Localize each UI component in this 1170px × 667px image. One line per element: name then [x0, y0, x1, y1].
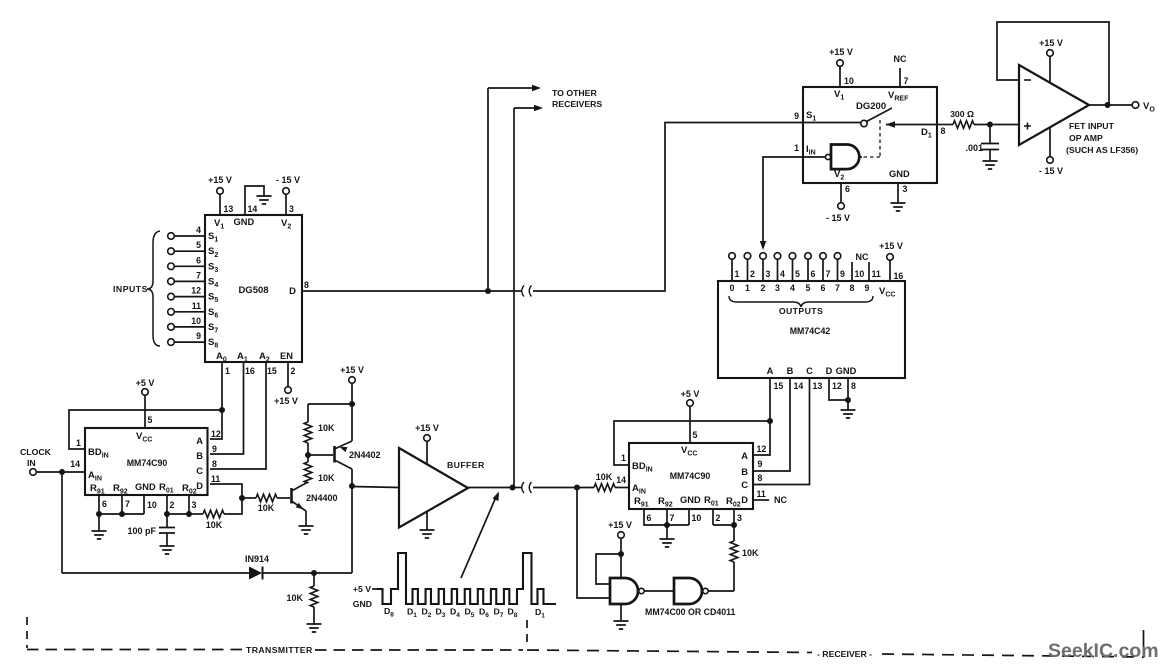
- svg-text:GND: GND: [353, 599, 372, 609]
- +15 V terminal at DG200 V1: [837, 60, 844, 67]
- svg-text:8: 8: [850, 283, 855, 293]
- svg-text:+5 V: +5 V: [681, 389, 700, 399]
- wire diode to 10K node: [263, 572, 353, 574]
- svg-text:TO OTHER: TO OTHER: [552, 88, 597, 98]
- wire buffer output: [468, 487, 512, 489]
- svg-text:3: 3: [766, 269, 771, 279]
- svg-text:- RECEIVER -: - RECEIVER -: [817, 649, 872, 659]
- svg-text:+15 V: +15 V: [274, 396, 298, 406]
- wire NAND2 output to 10K: [708, 590, 734, 592]
- MM74C42 output terminal 2 (pin 3): [760, 253, 767, 260]
- svg-text:5: 5: [806, 283, 811, 293]
- NAND pullup loop to gate input: [596, 554, 621, 584]
- svg-text:IN914: IN914: [245, 554, 269, 564]
- NAND gate 2: [674, 578, 702, 604]
- wire MM74C90 D pin 11 to node: [210, 484, 242, 498]
- terminal EN to +15 V: [285, 387, 292, 394]
- svg-text:NC: NC: [894, 54, 907, 64]
- op-amp plus sign: [1024, 123, 1031, 130]
- svg-text:CLOCK: CLOCK: [20, 447, 52, 457]
- wire S3 to DG508: [174, 265, 205, 267]
- wire S7 to DG508: [174, 326, 205, 328]
- resistor 10K receiver reset: [733, 525, 735, 541]
- svg-text:MM74C00 OR CD4011: MM74C00 OR CD4011: [645, 607, 736, 617]
- IC U7 MM74C90 counter (receiver) body: [629, 443, 753, 509]
- svg-text:16: 16: [245, 366, 255, 376]
- svg-text:+15 V: +15 V: [608, 520, 632, 530]
- wire 2N4402 emitter to +15V node: [351, 404, 353, 441]
- MM74C42 output terminal 1 (pin 2): [744, 253, 751, 260]
- line-break marks on D line: [522, 286, 532, 297]
- svg-text:10: 10: [855, 269, 865, 279]
- wire +15V into gate top: [620, 554, 622, 578]
- svg-text:OUTPUTS: OUTPUTS: [779, 306, 823, 316]
- svg-text:C: C: [196, 466, 203, 476]
- svg-text:DG508: DG508: [238, 285, 268, 296]
- input terminal S1: [168, 233, 175, 240]
- svg-text:9: 9: [794, 111, 799, 121]
- MM74C42 output terminal 4 (pin 5): [789, 253, 796, 260]
- +15 V terminal above op-amp: [1047, 50, 1054, 57]
- DG200 pin 3 wire GND: [897, 183, 899, 203]
- svg-text:GND: GND: [135, 482, 156, 492]
- +15 V supply terminal at DG508 V1: [217, 188, 224, 195]
- receiver border dashed bottom: [527, 650, 812, 653]
- svg-text:3: 3: [737, 513, 742, 523]
- resistor 10K pulldown: [313, 573, 315, 586]
- svg-text:8: 8: [304, 280, 309, 290]
- svg-text:15: 15: [267, 366, 277, 376]
- vertical wire D node to receivers arrow: [487, 88, 489, 291]
- wire output pin 7: [822, 259, 824, 281]
- svg-text:2: 2: [750, 269, 755, 279]
- +15 V terminal above buffer: [424, 435, 431, 442]
- line-break marks on signal line: [522, 482, 532, 493]
- NAND gate 1: [610, 578, 638, 604]
- svg-text:B: B: [196, 451, 203, 461]
- ground under .001 cap: [983, 161, 998, 169]
- svg-text:B: B: [741, 467, 748, 477]
- ground under buffer: [420, 530, 435, 538]
- ground at receiver GND: [666, 525, 668, 539]
- svg-text:6: 6: [196, 255, 201, 265]
- junction output/feedback: [1105, 102, 1111, 108]
- svg-text:10K: 10K: [318, 423, 335, 433]
- svg-text:.001: .001: [965, 143, 983, 153]
- wire I-in to MM74C42 arrow: [763, 157, 803, 244]
- svg-text:4: 4: [196, 225, 201, 235]
- svg-text:D: D: [741, 495, 748, 505]
- BD-in feedback wire pin 1 to A output line: [69, 410, 222, 449]
- svg-text:9: 9: [212, 444, 217, 454]
- wire output pin 1: [731, 259, 733, 281]
- svg-text:10: 10: [191, 316, 201, 326]
- wire 300ohm to op-amp + input: [974, 124, 1019, 126]
- DG200 pin 10 wire V1: [839, 66, 841, 87]
- receiver bottom pins 6 7 10: [644, 509, 689, 525]
- data waveform trace: [377, 553, 556, 604]
- junction base node 2N4402: [305, 452, 311, 458]
- receiver D pin 11 NC stub: [753, 499, 769, 501]
- feedback wire output to minus input: [997, 22, 1109, 105]
- svg-text:10K: 10K: [286, 593, 303, 603]
- -15 V terminal at DG200 V2: [838, 203, 845, 210]
- junction D/GND: [845, 397, 851, 403]
- junction cap node: [987, 122, 993, 128]
- svg-text:GND: GND: [836, 366, 857, 376]
- svg-text:15: 15: [774, 381, 784, 391]
- switch dashed actuator: [879, 120, 881, 157]
- wire node down to IN914 line: [351, 486, 353, 573]
- svg-text:14: 14: [70, 459, 80, 469]
- transistor Q2 2N4402: [333, 446, 336, 463]
- svg-text:4: 4: [780, 269, 785, 279]
- switch pole circle: [861, 120, 867, 126]
- svg-text:OP AMP: OP AMP: [1069, 133, 1103, 143]
- svg-text:10K: 10K: [206, 520, 223, 530]
- svg-text:10K: 10K: [318, 473, 335, 483]
- transmitter border dashed vertical left: [26, 617, 28, 648]
- junction signal node at buffer input: [349, 483, 355, 489]
- wire +15V rail to resistor: [308, 403, 352, 405]
- op-amp minus sign: [1024, 79, 1031, 81]
- IC U2 MM74C90 counter (transmitter) body: [85, 428, 208, 495]
- svg-text:10: 10: [692, 513, 702, 523]
- resistor 10K to 2N4400 base: [242, 497, 256, 499]
- svg-text:3: 3: [192, 500, 197, 510]
- ground under 100 pF: [160, 546, 175, 554]
- wire I-in to bubble: [803, 156, 825, 158]
- wire clock node down to IN914 line: [61, 472, 63, 573]
- wire 2N4402 collector down to signal node: [351, 469, 353, 486]
- junction +15V node: [349, 401, 355, 407]
- svg-text:2N4402: 2N4402: [349, 450, 381, 460]
- svg-text:2N4400: 2N4400: [306, 493, 338, 503]
- svg-text:A: A: [741, 451, 748, 461]
- wire DG508 A2 to MM74C90 C pin 8: [210, 362, 266, 469]
- transistor Q1 2N4400: [290, 488, 293, 504]
- junction NAND pullup: [618, 551, 624, 557]
- wire NAND1 out to NAND2 in: [644, 590, 674, 592]
- svg-text:NC: NC: [774, 495, 787, 505]
- svg-text:6: 6: [647, 513, 652, 523]
- wire DG508 D output: [302, 290, 488, 292]
- input terminal S5: [168, 293, 175, 300]
- receiver border dashed vertical: [526, 620, 528, 648]
- junction BD feedback on A line: [767, 418, 773, 424]
- svg-text:6: 6: [102, 499, 107, 509]
- wire VCC pin 16: [889, 260, 891, 281]
- AND gate input bubble: [825, 154, 830, 159]
- svg-text:- 15 V: - 15 V: [826, 213, 850, 223]
- svg-text:C: C: [806, 366, 813, 376]
- DG200 pin 6 wire V2: [840, 183, 842, 203]
- input terminal S4: [168, 278, 175, 285]
- junction diode/10K: [311, 570, 317, 576]
- svg-text:3: 3: [775, 283, 780, 293]
- -15 V terminal below op-amp: [1047, 157, 1054, 164]
- svg-text:+5 V: +5 V: [136, 378, 155, 388]
- wire S8 to DG508: [174, 341, 205, 343]
- svg-text:7: 7: [904, 76, 909, 86]
- wire S6 to DG508: [174, 311, 205, 313]
- wire D1 to right edge: [886, 124, 937, 126]
- MM74C42 output terminal 3 (pin 4): [774, 253, 781, 260]
- svg-text:1: 1: [745, 283, 750, 293]
- svg-text:+15 V: +15 V: [208, 175, 232, 185]
- MM74C90 bottom pin wires R01 R02: [166, 495, 168, 514]
- resistor 10K lower (2N4400 collector): [307, 482, 309, 483]
- switch lever: [867, 108, 893, 122]
- wire output pin 2: [747, 259, 749, 281]
- wire MM74C42 B to receiver MM74C90 B: [753, 378, 790, 471]
- receiver border right vertical: [1143, 630, 1145, 658]
- svg-text:12: 12: [211, 429, 221, 439]
- svg-text:9: 9: [196, 331, 201, 341]
- arrowhead on D1 wire: [886, 121, 895, 127]
- arrow to other receivers (lower): [514, 107, 535, 109]
- svg-text:SeekIC.com: SeekIC.com: [1048, 640, 1159, 662]
- ground at DG200 pin 3: [891, 203, 906, 211]
- MM74C42 output terminal 0 (pin 1): [729, 253, 736, 260]
- +5 V terminal receiver VCC: [687, 400, 694, 407]
- svg-text:+15 V: +15 V: [1039, 38, 1063, 48]
- svg-text:9: 9: [758, 459, 763, 469]
- MM74C90 bottom pin wires 6 7 10: [99, 495, 144, 514]
- wire line-break right of buffer: [533, 487, 577, 489]
- svg-text:2: 2: [716, 513, 721, 523]
- wire output pin 3: [762, 259, 764, 281]
- svg-text:1: 1: [76, 438, 81, 448]
- ground at R91/R92/GND: [98, 514, 100, 531]
- junction D/base node: [239, 495, 245, 501]
- svg-text:12: 12: [191, 286, 201, 296]
- wire stub buffer output to break: [513, 487, 523, 489]
- svg-text:10: 10: [147, 500, 157, 510]
- junction receiver input node: [574, 485, 580, 491]
- svg-text:14: 14: [616, 475, 626, 485]
- wire MM74C42 D + GND tie: [829, 378, 848, 400]
- transmitter border dashed bottom: [27, 649, 243, 651]
- svg-text:9: 9: [840, 269, 845, 279]
- junction clock/diode line: [59, 469, 65, 475]
- svg-text:IN: IN: [27, 458, 36, 468]
- svg-text:10K: 10K: [258, 503, 275, 513]
- svg-text:+15 V: +15 V: [829, 47, 853, 57]
- svg-text:8: 8: [851, 381, 856, 391]
- wire emitter to ground: [305, 511, 307, 526]
- svg-text:13: 13: [224, 204, 234, 214]
- input terminal S7: [168, 324, 175, 331]
- svg-text:- 15 V: - 15 V: [1039, 166, 1063, 176]
- svg-text:8: 8: [212, 459, 217, 469]
- MM74C42 pin 11 stub: [868, 262, 870, 281]
- wire output pin 5: [792, 259, 794, 281]
- input terminal S8: [168, 339, 175, 346]
- arrow to other receivers (upper): [488, 87, 533, 89]
- svg-text:8: 8: [941, 126, 946, 136]
- op-amp U3 buffer triangle: [399, 448, 468, 528]
- resistor 10K into receiver A-in: [577, 487, 594, 489]
- wire +15V into op-amp: [1049, 56, 1051, 83]
- svg-text:MM74C42: MM74C42: [790, 326, 831, 336]
- svg-text:1: 1: [621, 453, 626, 463]
- switch wire S1 to switch pole: [803, 122, 861, 124]
- DG508 pin 13 wire (V1): [219, 194, 221, 215]
- svg-text:9: 9: [865, 283, 870, 293]
- op-amp U5 FET input triangle: [1019, 65, 1089, 145]
- MM74C42 output terminal 5 (pin 6): [805, 253, 812, 260]
- INPUTS brace: [147, 231, 160, 346]
- DG200 pin 7 stub NC: [899, 68, 901, 87]
- DG508 pin 14 wire to ground bracket: [245, 186, 264, 215]
- wire node to 2N4402 base: [308, 454, 333, 456]
- wire output pin 9: [837, 259, 839, 281]
- vertical wire from buffer output up to receivers arrow: [513, 108, 515, 488]
- svg-text:2: 2: [761, 283, 766, 293]
- wire receiver node down to NAND input: [577, 488, 610, 599]
- svg-text:11: 11: [211, 474, 220, 484]
- junction buffer output node: [510, 485, 516, 491]
- svg-text:GND: GND: [889, 169, 910, 179]
- wire S2 to DG508: [174, 250, 205, 252]
- svg-text:C: C: [741, 480, 748, 490]
- svg-text:A: A: [196, 436, 203, 446]
- svg-text:5: 5: [693, 430, 698, 440]
- svg-text:12: 12: [832, 381, 842, 391]
- resistor 10K from R02 to D node: [189, 513, 203, 515]
- wire +5V to VCC pin 5: [144, 395, 146, 428]
- MM74C42 output terminal 6 (pin 7): [820, 253, 827, 260]
- IC U6 MM74C42 decoder body: [718, 281, 905, 378]
- svg-text:TRANSMITTER: TRANSMITTER: [246, 645, 313, 655]
- NAND gate 2 output bubble: [703, 588, 708, 593]
- svg-text:3: 3: [903, 184, 908, 194]
- arrowhead into MM74C42 output 2: [760, 241, 766, 250]
- svg-text:7: 7: [670, 513, 675, 523]
- wire -15V into op-amp: [1049, 127, 1051, 157]
- svg-text:5: 5: [196, 240, 201, 250]
- IC U1 DG508 analog multiplexer body: [205, 215, 302, 362]
- svg-text:(SUCH AS LF356): (SUCH AS LF356): [1066, 145, 1138, 155]
- ground at MM74C42 GND: [847, 400, 849, 410]
- svg-text:10: 10: [844, 76, 854, 86]
- MM74C42 pin 10 stub: [851, 262, 853, 281]
- svg-text:B: B: [787, 366, 794, 376]
- junction A0/BD feedback: [219, 407, 225, 413]
- ground at 2N4400 emitter: [299, 526, 314, 534]
- output terminal VO: [1132, 102, 1139, 109]
- svg-text:7: 7: [196, 270, 201, 280]
- svg-text:RECEIVERS: RECEIVERS: [552, 99, 602, 109]
- svg-text:7: 7: [125, 499, 130, 509]
- svg-text:10K: 10K: [742, 548, 759, 558]
- svg-text:10K: 10K: [596, 472, 613, 482]
- svg-text:GND: GND: [234, 217, 255, 227]
- wire DG508 A1 to MM74C90 B pin 9: [210, 362, 244, 454]
- svg-text:2: 2: [170, 500, 175, 510]
- wire MM74C42 A to receiver MM74C90 A: [753, 378, 770, 455]
- svg-text:A: A: [767, 366, 774, 376]
- svg-text:7: 7: [835, 283, 840, 293]
- IC U4 DG200 analog switch body: [803, 87, 937, 183]
- svg-text:1: 1: [794, 143, 799, 153]
- DG508 pin 3 wire (V2): [285, 194, 287, 215]
- ground under 10K: [307, 624, 322, 632]
- svg-text:6: 6: [845, 184, 850, 194]
- input terminal S6: [168, 309, 175, 316]
- svg-text:5: 5: [795, 269, 800, 279]
- +15 V supply terminal above 2N4402: [349, 377, 356, 384]
- wire op-amp output: [1089, 104, 1132, 106]
- wire clock to A-in pin 14: [36, 471, 85, 473]
- svg-text:INPUTS: INPUTS: [113, 284, 148, 294]
- +5 V supply terminal: [142, 389, 149, 396]
- wire +15V into buffer: [426, 441, 428, 465]
- wire clock node to diode: [62, 572, 249, 574]
- CLOCK IN terminal: [30, 469, 37, 476]
- input terminal S3: [168, 263, 175, 270]
- svg-text:100 pF: 100 pF: [127, 526, 156, 536]
- wire DG508 A0 to MM74C90 A pin 12: [210, 362, 222, 439]
- wire +5V to VCC pin 5: [689, 406, 691, 443]
- wire S5 to DG508: [174, 296, 205, 298]
- wire signal node to buffer input: [352, 487, 399, 488]
- wire D line to DG200 S1: [533, 123, 803, 292]
- svg-text:13: 13: [813, 381, 823, 391]
- wire output pin 4: [777, 259, 779, 281]
- wire DG508 EN pin 2: [287, 362, 289, 387]
- svg-text:- 15 V: - 15 V: [276, 175, 300, 185]
- svg-text:DG200: DG200: [856, 101, 886, 112]
- svg-text:6: 6: [811, 269, 816, 279]
- svg-text:11: 11: [192, 301, 201, 311]
- ground stem under buffer: [426, 511, 428, 530]
- svg-text:FET INPUT: FET INPUT: [1069, 121, 1115, 131]
- svg-text:D: D: [196, 481, 203, 491]
- OUTPUTS underbrace: [729, 296, 873, 307]
- svg-text:1: 1: [225, 366, 230, 376]
- svg-text:1: 1: [735, 269, 740, 279]
- input terminal S2: [168, 248, 175, 255]
- svg-text:300 Ω: 300 Ω: [950, 109, 974, 119]
- svg-text:14: 14: [248, 204, 258, 214]
- wire MM74C42 C to receiver MM74C90 C: [753, 378, 810, 485]
- AND gate (DG200 current sense): [831, 145, 859, 170]
- svg-text:MM74C90: MM74C90: [670, 471, 711, 481]
- svg-text:D: D: [826, 366, 833, 376]
- svg-text:D: D: [289, 286, 296, 297]
- ground under NAND gate 1: [614, 621, 629, 629]
- svg-text:NC: NC: [856, 252, 869, 262]
- wire S4 to DG508: [174, 280, 205, 282]
- svg-text:2: 2: [291, 366, 296, 376]
- wire output pin 6: [807, 259, 809, 281]
- svg-text:3: 3: [289, 204, 294, 214]
- resistor 10K upper: [307, 443, 309, 455]
- svg-text:+15 V: +15 V: [879, 241, 903, 251]
- svg-text:14: 14: [794, 381, 804, 391]
- annotation arrow from waveform to line: [461, 497, 496, 578]
- ground at DG508 pin 14: [257, 196, 272, 204]
- ground stem under NAND 1: [620, 604, 622, 621]
- MM74C42 output terminal 7 (pin 9): [834, 253, 841, 260]
- svg-text:GND: GND: [680, 495, 701, 505]
- +15 V terminal at MM74C42 VCC: [887, 254, 894, 261]
- svg-text:11: 11: [757, 489, 766, 499]
- svg-text:0: 0: [730, 283, 735, 293]
- svg-text:+15 V: +15 V: [415, 423, 439, 433]
